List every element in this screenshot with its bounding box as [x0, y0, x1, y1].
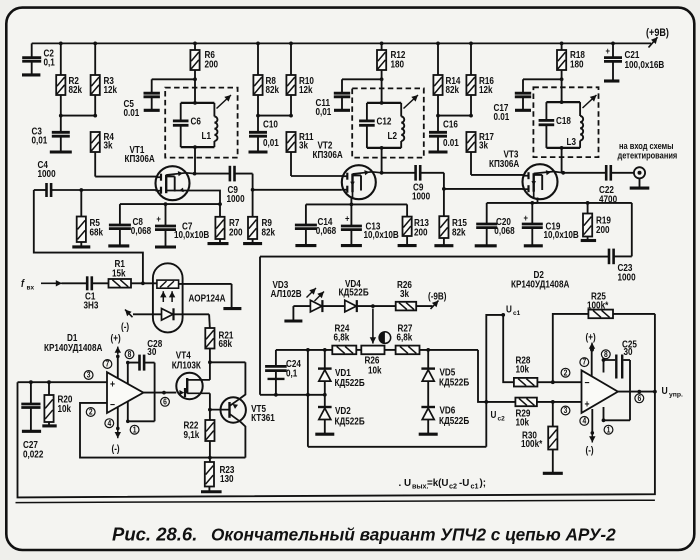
inductor L2 [388, 103, 405, 148]
wire VD3-VD4 [323, 305, 345, 307]
label Uupr [662, 385, 684, 398]
potentiometer R26 10k [361, 346, 384, 376]
transistor VT3 КП306А [489, 149, 563, 199]
svg-text:1000: 1000 [38, 168, 56, 179]
node R7 top [218, 202, 222, 206]
svg-text:68k: 68k [90, 227, 104, 238]
svg-text:КТ361: КТ361 [251, 413, 275, 424]
svg-text:0,1: 0,1 [44, 57, 55, 68]
node on +9V rail x=195 [193, 42, 197, 46]
svg-text:−: − [110, 399, 115, 411]
svg-text:с2: с2 [449, 481, 457, 490]
dashed box L3-C18 tuned circuit [533, 87, 598, 157]
wire VD3 anode [293, 306, 310, 321]
terminal (-) LED supply [121, 310, 133, 333]
resistor R26 3k [396, 279, 417, 310]
node tank2 bottom [380, 146, 384, 150]
svg-text:82k: 82k [69, 85, 83, 96]
capacitor C6 [173, 103, 201, 147]
wire R29 to D2 plus [537, 401, 582, 403]
svg-text:3Н3: 3Н3 [84, 300, 99, 311]
svg-text:C10: C10 [263, 119, 278, 130]
ground C10 [249, 150, 268, 153]
svg-text:0.01: 0.01 [494, 111, 510, 122]
transistor VT2 КП306А [313, 140, 382, 199]
node VT1 drain [193, 172, 197, 176]
node Uc1 [501, 313, 505, 317]
node C19 top [530, 201, 534, 205]
capacitor C21 [604, 43, 665, 80]
svg-text:U: U [491, 410, 497, 421]
wire C4 to R1 junction loop [34, 190, 143, 283]
wiper arrow R26 [370, 309, 376, 344]
svg-text:КЛ103К: КЛ103К [172, 360, 202, 371]
resistor R18 [557, 43, 585, 102]
svg-text:+: + [156, 213, 161, 224]
node rail-link top [306, 348, 310, 352]
svg-text:10k: 10k [516, 417, 530, 428]
inductor L3 [567, 102, 584, 148]
ground R23 [201, 490, 222, 493]
ground R5 [72, 245, 90, 248]
node R8 bottom [256, 114, 260, 118]
wire VT5 emitter up [240, 362, 245, 398]
resistor R27 [396, 323, 420, 354]
resistor R29 [515, 398, 537, 428]
node D2 output [637, 390, 641, 394]
svg-text:КД522Б: КД522Б [439, 377, 470, 388]
svg-text:6: 6 [163, 397, 167, 407]
svg-text:200: 200 [414, 227, 428, 238]
node D1 output [162, 391, 166, 395]
dashed box L1-C6 tuned circuit [165, 88, 237, 158]
svg-text:6: 6 [637, 393, 641, 403]
ground R13 [398, 244, 417, 247]
pin 1 D2 [604, 425, 613, 435]
resistor R30 [521, 402, 557, 473]
wire LED cathode to R21 [208, 314, 211, 329]
label Uc1 [506, 304, 521, 317]
node tank3 bottom [560, 146, 564, 150]
node C24 bottom [274, 393, 278, 397]
svg-text:1: 1 [607, 425, 611, 435]
svg-text:детектирования: детектирования [618, 151, 678, 161]
svg-text:10k: 10k [58, 403, 72, 414]
resistor R1 [92, 258, 157, 287]
svg-text:+: + [606, 45, 611, 56]
svg-text:. U: . U [399, 478, 412, 489]
label Uc2 [491, 410, 506, 423]
wire VT3 drain to C22 [563, 172, 606, 174]
diode VD4 КД522Б [339, 278, 370, 312]
capacitor C3 [32, 116, 70, 152]
node R6 bottom tap [193, 77, 197, 81]
wire tank3 top [546, 101, 580, 103]
terminal (+9B) supply arrow [646, 27, 669, 47]
wire detector feed bottom [260, 394, 325, 396]
capacitor C7 [155, 204, 210, 247]
svg-text:+: + [345, 213, 350, 224]
wire +9V supply rail [32, 42, 651, 44]
node VT3 drain [561, 171, 565, 175]
svg-text:2: 2 [89, 407, 93, 417]
resistor R24 [332, 323, 356, 354]
resistor R20 [44, 382, 72, 425]
svg-text:10k: 10k [516, 364, 530, 375]
wire VT3 source [532, 198, 537, 203]
svg-text:12k: 12k [479, 85, 493, 96]
ground R30 [543, 472, 563, 475]
transistor VT1 КП306А [125, 144, 195, 200]
node VD5 top [426, 348, 430, 352]
node feed-rail link bottom [306, 393, 310, 397]
wire D1 plus input [18, 381, 108, 383]
wire Uc2 from rail [478, 350, 515, 402]
wire R4 to VT1 gate2 [95, 152, 156, 177]
svg-text:3k: 3k [400, 288, 409, 299]
node R3 bottom [93, 114, 97, 118]
svg-text:100k*: 100k* [587, 300, 609, 311]
resistor R14 [433, 43, 460, 115]
svg-text:КП306А: КП306А [313, 149, 344, 160]
svg-text:(-9В): (-9В) [428, 291, 447, 302]
ground C16 [429, 150, 448, 153]
wire Uc1 riser [486, 315, 503, 447]
svg-text:200: 200 [596, 224, 610, 235]
photoresistor of АОР124А [157, 280, 179, 288]
svg-text:10,0x10В: 10,0x10В [544, 229, 580, 240]
node Uc2 riser crossing [484, 400, 488, 404]
svg-text:КР140УД1408А: КР140УД1408А [511, 279, 570, 290]
svg-text:82k: 82k [452, 227, 466, 238]
svg-text:6,8k: 6,8k [397, 332, 413, 343]
pin 3 D1 [84, 370, 93, 380]
LED of АОР124А [133, 308, 209, 320]
supply (+) D2 [586, 332, 596, 376]
node D2 output corner [653, 390, 657, 394]
svg-text:6,8k: 6,8k [334, 332, 350, 343]
svg-text:1: 1 [133, 425, 137, 435]
capacitor C1 [62, 276, 98, 310]
svg-text:C16: C16 [443, 119, 458, 130]
diode VD1 КД522Б [318, 350, 365, 395]
capacitor C19 [522, 203, 579, 246]
ground C13 [341, 244, 362, 247]
svg-text:+: + [110, 379, 115, 391]
wire detector feed left [259, 257, 261, 395]
resistor R7 [215, 204, 242, 243]
svg-text:12k: 12k [299, 85, 313, 96]
caption figure title [112, 524, 616, 545]
svg-text:100,0x16В: 100,0x16В [625, 59, 665, 70]
input terminal f_vx [21, 278, 62, 291]
ground C21 [604, 79, 619, 82]
resistor R5 [77, 190, 103, 247]
node R9 top [251, 188, 255, 192]
wire C4 gate line [34, 189, 157, 191]
capacitor C13 [341, 204, 399, 245]
wire VT2 source rail [306, 203, 407, 205]
svg-text:200: 200 [205, 59, 219, 70]
svg-text:10k: 10k [368, 365, 382, 376]
ground VD2 [315, 433, 334, 436]
svg-text:30: 30 [624, 347, 633, 358]
svg-text:на вход схемы: на вход схемы [619, 141, 674, 151]
resistor R16 [466, 43, 494, 115]
node R20 top [47, 380, 51, 384]
svg-text:КД522Б: КД522Б [335, 416, 366, 427]
ground C14 [295, 244, 316, 247]
wire detector bottom link [308, 446, 486, 448]
inductor L1 [202, 103, 218, 147]
node on +9V rail x=291 [289, 42, 293, 46]
node R10 bottom [289, 114, 293, 118]
wire R14-R16 bottom junction [438, 115, 471, 117]
svg-text:7: 7 [106, 359, 110, 369]
wire D1 minus feedback loop [80, 403, 245, 458]
wire VT5 collector down [240, 422, 245, 458]
ground R9 [243, 242, 262, 245]
svg-text:L3: L3 [567, 136, 577, 147]
wire tank3 to VT3 drain [561, 148, 563, 173]
transistor VT4 КЛ103К [172, 350, 210, 399]
resistor R9 [248, 190, 275, 243]
svg-text:200: 200 [229, 227, 243, 238]
pin 3 D2 [561, 406, 570, 416]
svg-text:0,068: 0,068 [131, 225, 151, 236]
svg-text:=k(U: =k(U [427, 478, 449, 489]
node on +9V rail x=60.8 [59, 42, 63, 46]
svg-text:8: 8 [604, 349, 608, 359]
node R5 top [79, 188, 83, 192]
svg-text:−: − [585, 377, 590, 389]
svg-text:АОР124А: АОР124А [189, 293, 226, 304]
wire D2 output [618, 391, 655, 393]
supply (-) D1 [112, 408, 122, 455]
svg-text:0,068: 0,068 [494, 225, 514, 236]
node on +9V rail x=613 [611, 42, 615, 46]
node on +9V rail x=471 [469, 42, 473, 46]
svg-text:вх: вх [27, 285, 35, 292]
wire tank1 bottom [181, 146, 215, 148]
node R19 top [586, 201, 590, 205]
capacitor C17 [494, 79, 562, 122]
ground R7 [208, 242, 229, 245]
pin 7 D2 [580, 357, 589, 367]
node VT2 drain [380, 171, 384, 175]
ground C7 [155, 245, 176, 248]
wire VT1 source rail [120, 203, 220, 205]
dashed box L2-C12 tuned circuit [352, 88, 424, 157]
wire VT1 source to R7 [188, 191, 221, 205]
node VT4 source - VT5 base [208, 408, 212, 412]
svg-text:180: 180 [570, 59, 584, 70]
wire Uc1 to R28 [503, 315, 514, 382]
node R1 output [141, 281, 145, 285]
ground C11 [334, 109, 350, 112]
node VT4 drain-R21 [208, 360, 212, 364]
svg-text:упр.: упр. [669, 392, 683, 399]
svg-text:130: 130 [220, 473, 234, 484]
svg-text:(+): (+) [586, 332, 596, 343]
wire source rail to C23 [631, 203, 633, 257]
node R22-R23 junction [208, 456, 212, 460]
wire tank1 to VT1 drain [194, 147, 196, 174]
resistor R25 feedback [553, 291, 655, 392]
wire drain rail to VT5 emitter [210, 361, 246, 363]
ground C3 [50, 150, 72, 153]
resistor R19 [583, 203, 611, 240]
wire VT2 source [350, 198, 352, 204]
node tank1 bottom [193, 145, 197, 149]
wire C9 to VT3 gate1 [444, 173, 523, 189]
capacitor C18 [539, 102, 571, 148]
svg-text:0,068: 0,068 [316, 225, 336, 236]
svg-text:+: + [524, 212, 529, 223]
svg-text:Окончательный вариант УПЧ2 с ц: Окончательный вариант УПЧ2 с цепью АРУ-2 [211, 525, 616, 545]
tuning arrow L1 [217, 95, 232, 109]
resistor R17 [466, 131, 494, 152]
svg-text:15k: 15k [112, 268, 126, 279]
capacitor C25 compensation loop [602, 339, 637, 423]
wire R28 to D2 minus [537, 381, 581, 383]
ground photoresistor [223, 307, 241, 310]
node tank2 top [380, 101, 384, 105]
capacitor C23 [609, 249, 636, 283]
svg-text:(-): (-) [121, 321, 129, 332]
svg-text:82k: 82k [266, 85, 280, 96]
pin 8 D1 [125, 349, 134, 359]
svg-text:(-): (-) [112, 443, 120, 454]
wire tank2 to VT2 drain [381, 148, 383, 173]
wire R2-R3 bottom junction [61, 115, 95, 117]
resistor R12 [377, 43, 405, 103]
capacitor C9 (stage1-2) [195, 166, 253, 204]
pin 6 D2 [635, 393, 644, 403]
capacitor C14 [295, 204, 336, 245]
svg-text:82k: 82k [446, 85, 460, 96]
node C7 top [164, 202, 168, 206]
ground C20 [475, 244, 497, 247]
svg-text:с1: с1 [513, 310, 521, 317]
resistor R2 [56, 43, 82, 115]
svg-text:Рис. 28.6.: Рис. 28.6. [112, 524, 197, 545]
capacitor C8 [109, 204, 151, 245]
node on +9V rail x=95.2 [93, 42, 97, 46]
wire VD4 to R26 [357, 305, 396, 307]
node on +9V rail x=381.6 [380, 42, 384, 46]
svg-text:КД522Б: КД522Б [335, 377, 366, 388]
node R2 bottom [59, 114, 63, 118]
transistor VT5 КТ361 [210, 397, 275, 423]
wire R11 to VT2 gate2 [291, 152, 342, 176]
resistor R6 [190, 43, 218, 103]
terminal (-9B) [416, 291, 446, 309]
svg-text:1000: 1000 [412, 191, 430, 202]
svg-text:100k*: 100k* [521, 438, 543, 449]
node R15 top [442, 187, 446, 191]
svg-text:C6: C6 [191, 116, 201, 127]
svg-text:(+): (+) [111, 333, 121, 344]
svg-text:3k: 3k [104, 140, 113, 151]
svg-text:0.01: 0.01 [443, 137, 459, 148]
svg-text:180: 180 [391, 59, 405, 70]
ground C2 [22, 73, 40, 76]
svg-text:U: U [662, 385, 668, 397]
resistor R22 [184, 410, 215, 458]
capacitor C24 [265, 350, 301, 395]
op-amp D2 КР140УД1408А [511, 269, 618, 413]
supply (+) D1 [111, 333, 122, 378]
wire R8-R10 bottom junction [258, 115, 291, 117]
resistor R13 [403, 204, 429, 245]
op-amp D1 КР140УД1408А [44, 332, 143, 413]
resistor R8 [253, 43, 279, 115]
svg-text:КП306А: КП306А [125, 153, 156, 164]
wire VT4 source down [209, 393, 211, 409]
node tank1 top [193, 101, 197, 105]
svg-text:АЛ102В: АЛ102В [271, 288, 303, 299]
node C13 top [350, 203, 354, 207]
capacitor C10 [249, 116, 279, 152]
svg-text:0,01: 0,01 [263, 137, 279, 148]
node on +9V rail x=438 [436, 42, 440, 46]
svg-text:+: + [585, 399, 590, 411]
svg-text:U: U [506, 304, 512, 315]
node R12 bottom tap [380, 77, 384, 81]
wire tank2 top [367, 102, 401, 104]
node tank3 top [560, 100, 564, 104]
svg-text:7: 7 [582, 357, 586, 367]
resistor R3 [91, 43, 117, 115]
indicator symbol (photocurrent) [379, 332, 391, 344]
pin 4 D1 [105, 418, 114, 428]
svg-text:C18: C18 [556, 115, 571, 126]
svg-text:(-): (-) [586, 445, 594, 456]
tuning arrow L2 [404, 95, 419, 109]
svg-text:68k: 68k [219, 338, 233, 349]
wire Uupr AGC feedback [18, 382, 655, 497]
wire R17 to VT3 gate2 [471, 152, 523, 175]
capacitor C11 [316, 79, 382, 117]
pin 2 D2 [561, 368, 570, 378]
capacitor C5 [124, 79, 196, 118]
supply (-) D2 [586, 409, 596, 456]
resistor R21 [205, 328, 233, 362]
svg-text:30: 30 [147, 346, 156, 357]
node VD1-VD2 junction [323, 393, 327, 397]
ground C19 [524, 244, 543, 247]
svg-text:(+9В): (+9В) [646, 27, 669, 39]
diode VD2 КД522Б [318, 395, 365, 434]
pin 6 D1 [161, 397, 170, 407]
svg-text:9,1k: 9,1k [184, 429, 200, 440]
svg-text:3: 3 [564, 406, 568, 416]
svg-text:8: 8 [128, 349, 132, 359]
capacitor C16 [429, 116, 459, 152]
svg-text:1000: 1000 [618, 272, 636, 283]
resistor R15 [439, 189, 467, 245]
wire C9 to VT2 gate1 [253, 174, 342, 190]
svg-text:с2: с2 [498, 416, 506, 423]
node on +9V rail x=561.6 [560, 42, 564, 46]
node R18 bottom tap [560, 77, 564, 81]
resistor R28 [514, 355, 538, 387]
wire tank2 bottom [367, 147, 401, 149]
diode VD3 АЛ102В [271, 279, 323, 312]
resistor R4 [91, 131, 114, 152]
svg-text:C12: C12 [377, 116, 392, 127]
